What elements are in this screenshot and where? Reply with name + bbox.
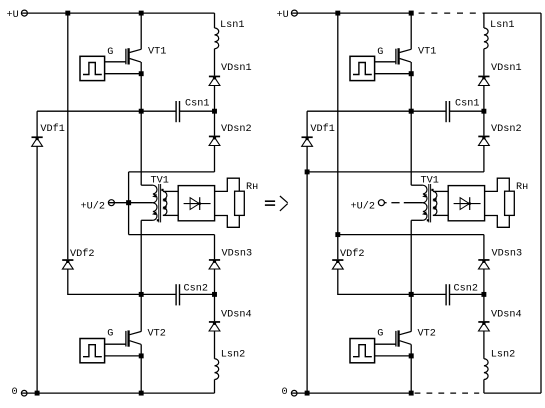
implication arrow => (265, 196, 288, 211)
driver return wire (left) (105, 73, 142, 75)
wire VDsn2 down to corner (right) (483, 146, 485, 172)
node: VT1 emitter (left) (139, 71, 144, 76)
wire VDsn1 to VDsn2 (left) (214, 86, 216, 136)
primary winding arrows (152, 194, 157, 216)
VDf1 branch upper wire (right) (306, 111, 308, 136)
rectifier diode symbol (184, 197, 211, 210)
Csn1 wire left part (left) (37, 110, 176, 112)
svg-text:+U: +U (7, 10, 19, 21)
VDf2 branch to Csn2 wire (right) (338, 269, 446, 294)
Csn1 wire right part (left) (180, 110, 215, 112)
rectifier block (178, 186, 214, 221)
diode VDf1 (right) (302, 136, 313, 146)
node: top rail / VDf2 branch (right) (335, 11, 340, 16)
transformer core (159, 184, 161, 222)
diode VDf2 (right) (332, 259, 343, 269)
right column top segment (left) (214, 13, 216, 28)
VT1 collector wire (left) (140, 13, 142, 49)
winding polarity marks (157, 189, 164, 222)
node: bottom rail / VT2 emitter (right) (409, 391, 414, 396)
primary bottom lead (right) (411, 219, 423, 221)
secondary bottom lead (163, 214, 178, 216)
bottom rail outer part (right) (484, 392, 541, 394)
wire VDsn4 to Lsn2 (right) (483, 331, 485, 359)
rectifier block (448, 186, 484, 221)
node: Csn1 right (right) (481, 109, 486, 114)
Csn2 wire right part (right) (450, 293, 484, 295)
terminal +U/2 (right) (378, 200, 384, 206)
gate wire VT1 (right) (375, 61, 396, 63)
mid branch vertical (left) (128, 172, 130, 235)
wire down to VDsn3 (right) (483, 235, 485, 260)
terminal +U/2 (left) (108, 200, 114, 206)
load Rн upper connection (215, 178, 240, 191)
node: Csn2 right (left) (212, 292, 217, 297)
node: VDf1 branch / VDsn2 wire (right) (305, 169, 310, 174)
svg-text:VDf2: VDf2 (340, 248, 364, 260)
primary top lead (left) (141, 184, 153, 186)
transistor VT1 (left) (126, 48, 141, 64)
secondary winding arrows (162, 198, 167, 210)
gate wire VT2 (left) (105, 343, 126, 345)
wire VDsn3 to VDf2 branch (right) (338, 234, 484, 236)
secondary top lead (163, 190, 178, 192)
svg-text:Lsn2: Lsn2 (221, 350, 245, 361)
node: top rail / VT1 collector (right) (409, 11, 414, 16)
primary top lead (right) (411, 184, 423, 186)
svg-text:VDsn3: VDsn3 (222, 248, 253, 259)
wire Lsn2 to bottom rail (right) (483, 380, 485, 394)
terminal +U (left) (21, 10, 27, 16)
svg-text:0: 0 (12, 387, 18, 398)
svg-text:VDf1: VDf1 (40, 123, 64, 135)
svg-text:Csn2: Csn2 (454, 284, 478, 295)
VDf2 branch wire (right) (337, 13, 339, 259)
primary bottom wire down (right) (410, 220, 412, 294)
secondary bottom lead (433, 214, 448, 216)
node: +U/2 branch (left) (126, 200, 131, 205)
node: Csn1 right (left) (212, 109, 217, 114)
svg-text:Csn1: Csn1 (455, 99, 479, 110)
svg-text:VT2: VT2 (148, 329, 166, 340)
wire Lsn2 to bottom rail (left) (214, 380, 216, 394)
gate wire VT2 (right) (375, 343, 396, 345)
winding polarity marks (427, 189, 434, 222)
wire +U/2 to center tap (left) (109, 202, 153, 204)
VDf1 branch lower wire (right) (306, 146, 308, 393)
svg-text:Rн: Rн (516, 182, 528, 193)
wire down to VDsn3 (left) (214, 235, 216, 260)
Csn2 wire right part (left) (180, 293, 215, 295)
node: VT2 emitter (left) (139, 353, 144, 358)
primary bottom lead (left) (141, 219, 153, 221)
transformer TV1 primary winding (153, 185, 157, 220)
VDf2 branch wire (left) (67, 13, 69, 259)
VT2 collector wire (right) (410, 294, 412, 331)
terminal +U (right) (291, 10, 297, 16)
svg-text:VDf2: VDf2 (70, 248, 94, 260)
bottom rail (left) (22, 392, 215, 394)
svg-text:VT1: VT1 (418, 47, 436, 58)
rectifier diode symbol (454, 197, 481, 210)
svg-text:0: 0 (282, 387, 288, 398)
svg-text:VDsn2: VDsn2 (491, 124, 522, 135)
top rail outer part (right) (484, 12, 541, 14)
wire VDsn2 to mid branch (left) (129, 171, 215, 173)
wire VDsn2 down to corner (left) (214, 146, 216, 172)
gate driver box G1 (right) (350, 56, 375, 80)
diode VDf2 (left) (62, 259, 73, 269)
primary bottom wire down (left) (140, 220, 142, 294)
svg-text:VDf1: VDf1 (310, 123, 334, 135)
svg-text:Lsn2: Lsn2 (491, 350, 515, 361)
gate driver box G2 (right) (350, 339, 375, 363)
wire Lsn1 to VDsn1 (left) (214, 49, 216, 76)
resistor Rн body (235, 191, 245, 215)
transformer TV1 primary winding (423, 185, 427, 220)
node: VT1 emitter (right) (409, 71, 414, 76)
VT2 emitter wire (left) (140, 344, 142, 393)
svg-text:VDsn1: VDsn1 (221, 63, 252, 74)
terminal 0 (left) (21, 390, 27, 396)
node: Csn1 left (right) (409, 109, 414, 114)
driver return wire VT2 (right) (375, 355, 412, 357)
inductor Lsn1 (left) (215, 28, 219, 49)
node: bottom rail / VT2 emitter (left) (139, 391, 144, 396)
driver return wire (right) (375, 73, 412, 75)
VT1 collector wire (right) (410, 13, 412, 49)
secondary top lead (433, 190, 448, 192)
top rail solid part (right) (292, 12, 411, 14)
diode VDsn3 (left) (209, 259, 220, 269)
svg-text:Lsn1: Lsn1 (490, 20, 514, 31)
bottom rail solid part (right) (292, 392, 412, 394)
VT2 collector wire (left) (140, 294, 142, 331)
VT1 emitter wire (right) (410, 62, 412, 185)
VDf1 branch lower wire (left) (36, 146, 38, 393)
svg-text:+U/2: +U/2 (81, 201, 105, 213)
node: Csn2 left / VT2 collector (left) (139, 292, 144, 297)
svg-text:Lsn1: Lsn1 (220, 20, 244, 31)
diode VDsn1 (left) (209, 76, 220, 86)
node: bottom rail / VDf1 (right) (305, 391, 310, 396)
svg-text:G: G (107, 47, 113, 58)
node: top rail / VDf2 branch (left) (65, 11, 70, 16)
wire mid branch to VDsn3 (left) (129, 234, 215, 236)
svg-text:Csn1: Csn1 (185, 99, 209, 110)
gate driver box G2 (left) (80, 339, 105, 363)
svg-text:+U: +U (277, 10, 289, 21)
inductor Lsn2 (right) (484, 359, 488, 380)
load Rн lower connection (215, 215, 240, 227)
transformer TV1 secondary winding (433, 191, 437, 215)
svg-text:VDsn4: VDsn4 (491, 310, 522, 321)
Csn1 wire right part (right) (450, 110, 484, 112)
capacitor Csn2 (right) (446, 284, 449, 305)
inductor Lsn1 (right) (484, 28, 488, 49)
terminal 0 (right) (291, 390, 297, 396)
svg-text:G: G (107, 329, 113, 340)
wire Lsn1 to VDsn1 (right) (483, 49, 485, 76)
driver return wire VT2 (left) (105, 355, 142, 357)
top rail dashed part (right) (419, 12, 484, 14)
diode VDsn4 (left) (209, 321, 220, 331)
capacitor Csn1 (left) (176, 101, 179, 122)
node: bottom rail / VDf1 (left) (35, 391, 40, 396)
outer right return conductor (right) (540, 13, 542, 393)
gate driver box G1 (left) (80, 56, 105, 80)
top rail (left) (22, 12, 215, 14)
transistor VT2 (right) (396, 330, 411, 346)
node: VT2 emitter (right) (409, 353, 414, 358)
diode VDsn4 (right) (478, 321, 489, 331)
resistor Rн body (505, 191, 515, 215)
node: Csn2 left / VT2 collector (right) (409, 292, 414, 297)
right column top segment (right) (483, 13, 485, 28)
diode VDsn2 (left) (209, 136, 220, 146)
transformer core (429, 184, 431, 222)
VT1 emitter wire (left) (140, 62, 142, 185)
secondary winding arrows (432, 198, 437, 210)
node: VDf2 branch / VDsn3 wire (right) (335, 232, 340, 237)
transistor VT2 (left) (126, 330, 141, 346)
svg-text:Csn2: Csn2 (184, 284, 208, 295)
svg-text:Rн: Rн (246, 182, 258, 193)
load Rн upper connection (485, 178, 510, 191)
gate wire VT1 (left) (105, 61, 126, 63)
VDf1 branch upper wire (left) (36, 111, 38, 136)
inductor Lsn2 (left) (215, 359, 219, 380)
svg-text:VDsn2: VDsn2 (221, 124, 252, 135)
svg-text:VDsn3: VDsn3 (492, 248, 523, 259)
svg-text:VT2: VT2 (418, 329, 436, 340)
diode VDsn1 (right) (478, 76, 489, 86)
capacitor Csn1 (right) (446, 101, 449, 122)
svg-text:+U/2: +U/2 (351, 201, 375, 213)
diode VDsn3 (right) (478, 259, 489, 269)
capacitor Csn2 (left) (176, 284, 179, 305)
bottom rail dashed part (right) (415, 392, 480, 394)
wire VDsn4 to Lsn2 (left) (214, 331, 216, 359)
load Rн lower connection (485, 215, 510, 227)
diode VDf1 (left) (32, 136, 43, 146)
diode VDsn2 (right) (478, 136, 489, 146)
node: top rail / VT1 collector (left) (139, 11, 144, 16)
Csn1 wire left part (right) (307, 110, 446, 112)
transistor VT1 (right) (396, 48, 411, 64)
wire VDsn1 to VDsn2 (right) (483, 86, 485, 136)
node: Csn1 left (left) (139, 109, 144, 114)
svg-text:VDsn1: VDsn1 (491, 63, 522, 74)
svg-text:G: G (377, 329, 383, 340)
svg-text:VT1: VT1 (148, 47, 166, 58)
svg-text:VDsn4: VDsn4 (221, 310, 252, 321)
wire VDsn3 to Csn2 node (right) (483, 269, 485, 321)
node: Csn2 right (right) (481, 292, 486, 297)
wire VDsn3 to Csn2 node (left) (214, 269, 216, 321)
wire VDsn2 to VDf1 branch (right) (307, 171, 484, 173)
dashed lead +U/2 to center tap (right) (384, 202, 423, 204)
VT2 emitter wire (right) (410, 344, 412, 393)
primary winding arrows (422, 194, 427, 216)
svg-text:G: G (377, 47, 383, 58)
transformer TV1 secondary winding (163, 191, 167, 215)
VDf2 branch to Csn2 wire (left) (68, 269, 176, 294)
